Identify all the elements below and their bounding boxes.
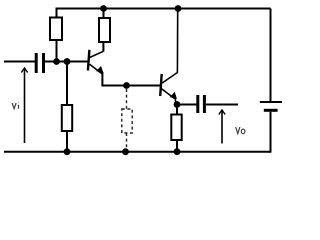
node base divider junction 2 — [64, 58, 71, 65]
node Q2 collector top junction — [175, 5, 182, 12]
wire input left segment — [4, 61, 35, 63]
wire output left segment — [177, 104, 196, 106]
wire output right segment (open end) — [206, 104, 238, 106]
wire input right segment — [45, 61, 89, 63]
resistor R2 — [62, 62, 72, 152]
capacitor C2 — [196, 95, 206, 113]
resistor dashed RE (phantom) — [122, 89, 132, 149]
resistor R4 — [171, 105, 181, 152]
label Vo — [236, 127, 245, 134]
arrow Vi — [21, 68, 27, 143]
wire right rail upper — [270, 9, 272, 102]
wire right rail lower — [270, 112, 272, 153]
node base divider junction 1 — [53, 58, 60, 65]
arrow Vo — [219, 110, 225, 144]
node R3 top junction — [100, 5, 107, 12]
resistor R3 — [99, 9, 110, 52]
node Q2 emitter junction — [174, 101, 181, 108]
node R4 bottom junction — [174, 148, 181, 155]
capacitor C1 — [35, 53, 45, 73]
wire top rail — [57, 9, 271, 18]
battery B1 — [260, 102, 282, 110]
node dashed-resistor top junction — [123, 82, 130, 89]
node dashed-resistor bottom junction — [122, 148, 129, 155]
resistor R1 — [50, 18, 62, 63]
wire bottom rail — [4, 151, 271, 153]
label Vi — [12, 103, 18, 109]
node R2 bottom junction — [64, 148, 71, 155]
transistor Q1 — [88, 50, 104, 74]
transistor Q2 — [160, 10, 178, 105]
wire Q1 emitter to Q2 base — [102, 72, 160, 86]
